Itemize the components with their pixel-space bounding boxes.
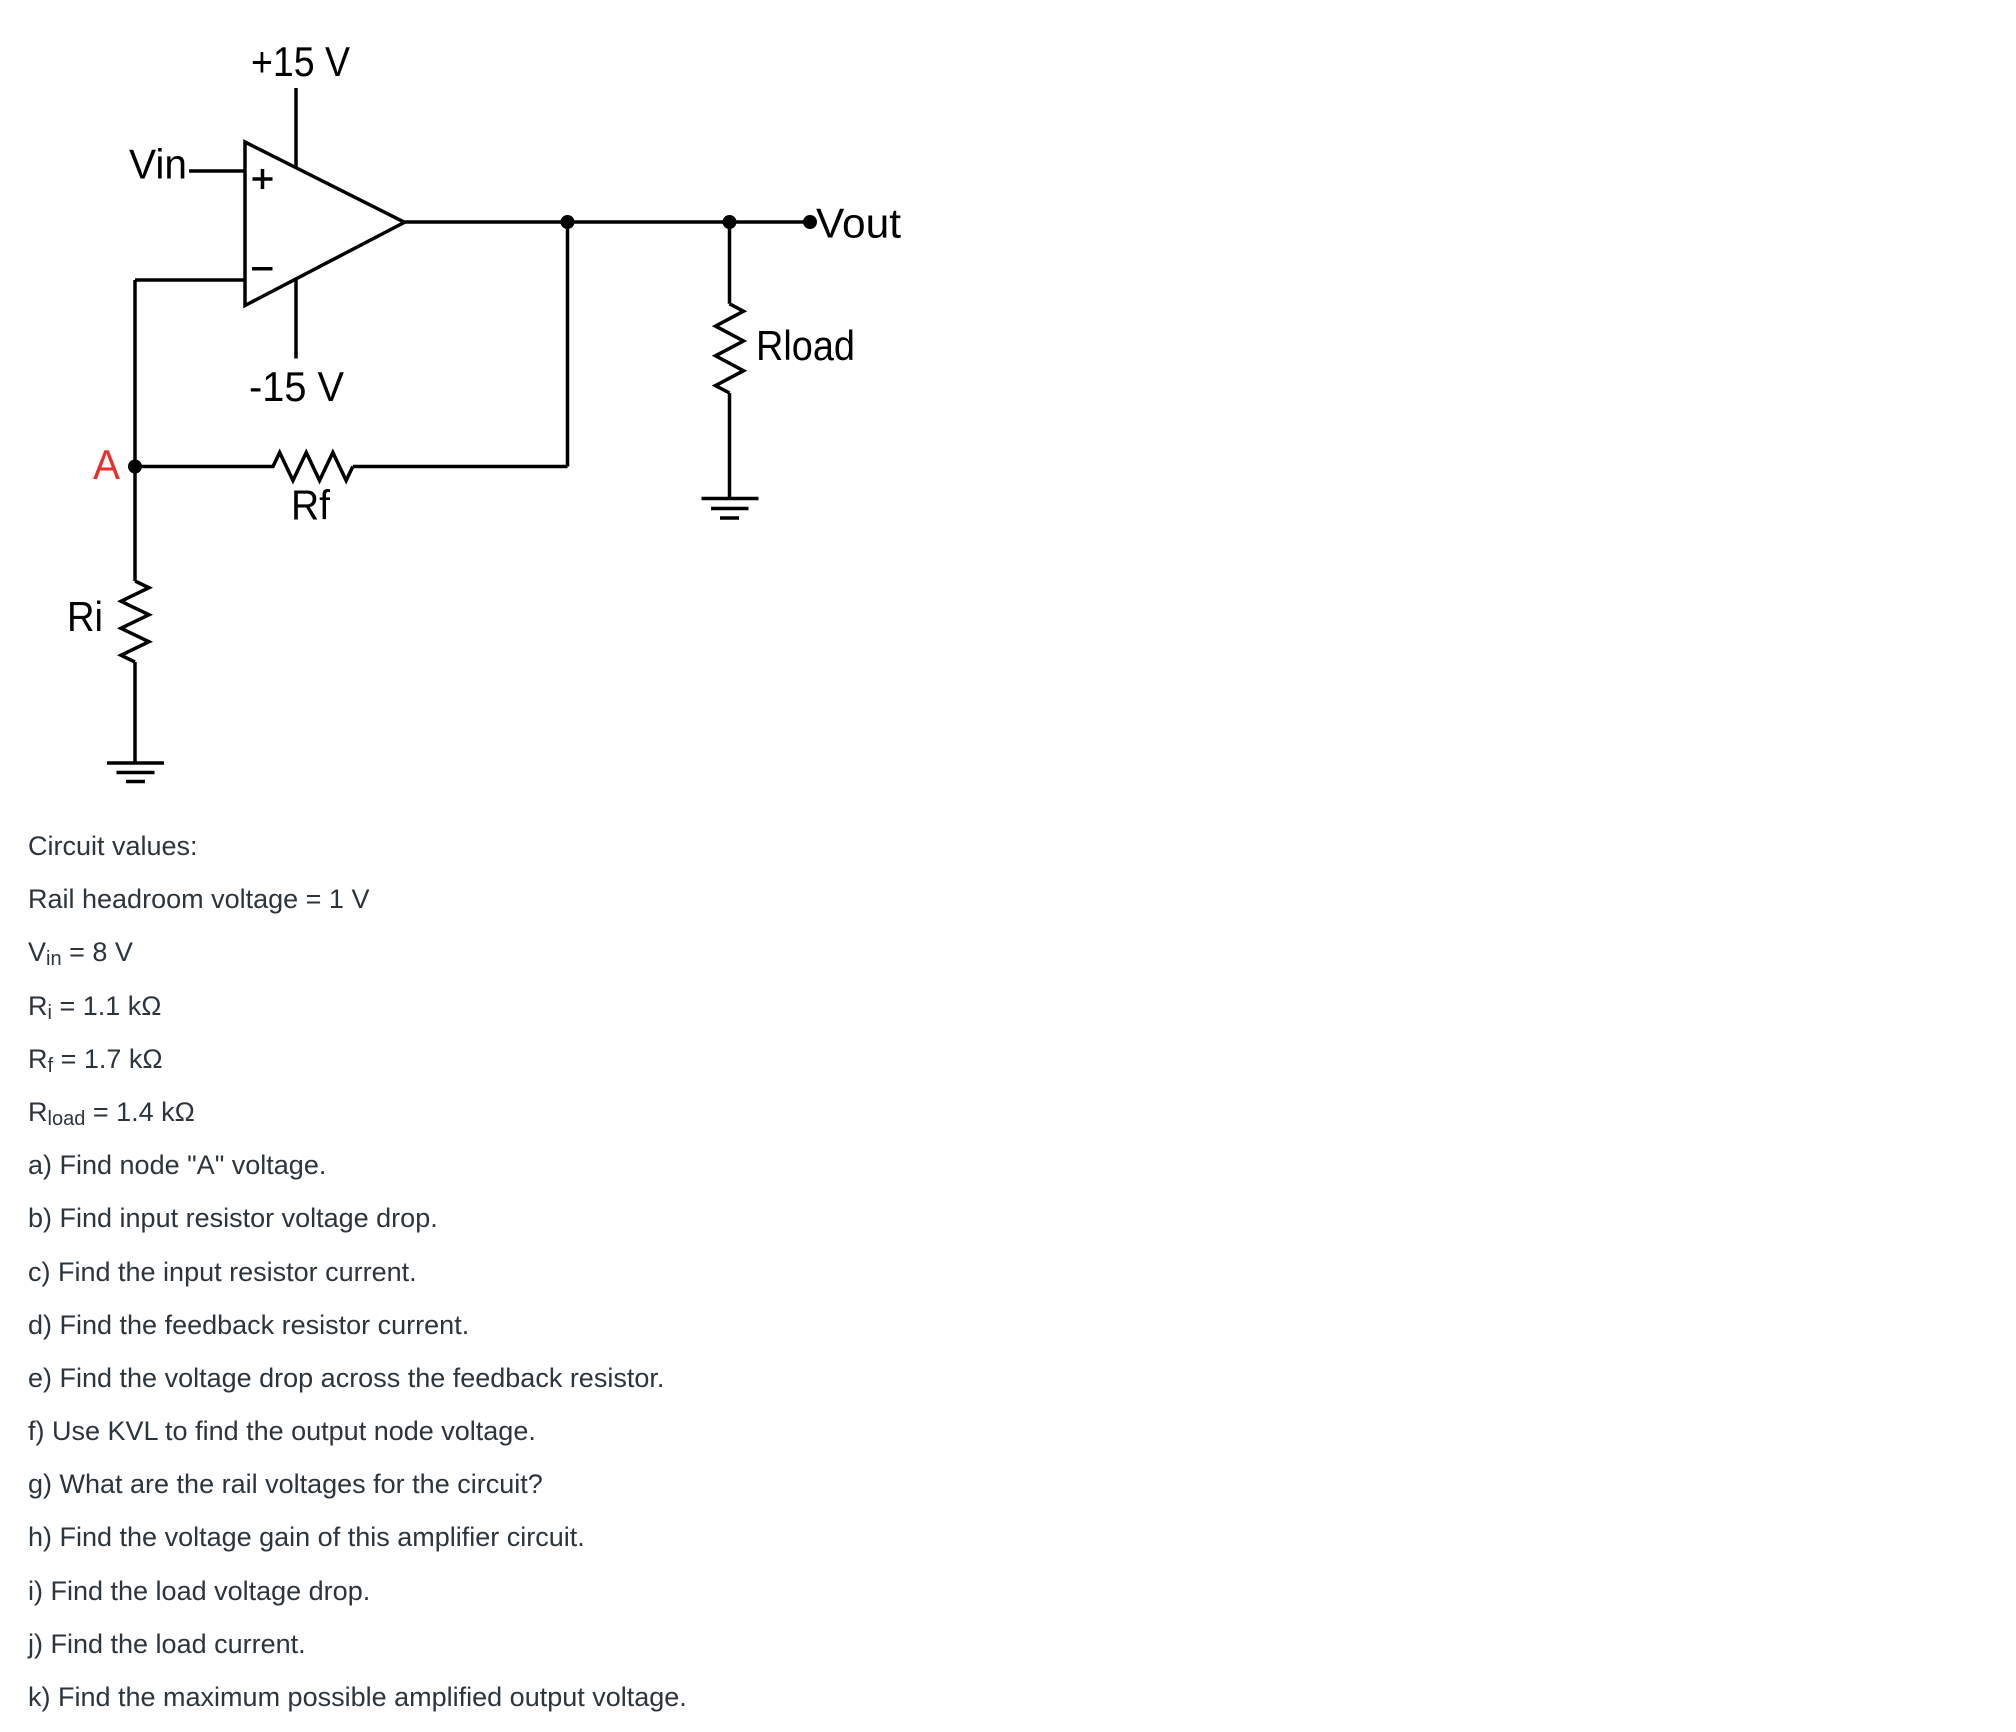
junction dot output-feedback bbox=[561, 215, 575, 229]
resistor Rload zigzag bbox=[716, 304, 744, 393]
op-amp - input marking bbox=[252, 267, 273, 271]
svg-text:Rf: Rf bbox=[291, 482, 330, 529]
op-amp + input marking bbox=[253, 169, 273, 189]
wire Rload top bbox=[728, 222, 732, 304]
wire node A vertical (inverting input down to node A) bbox=[133, 280, 137, 467]
wire feedback horizontal right part bbox=[353, 465, 568, 469]
wire node A down to Ri bbox=[133, 467, 137, 582]
resistor Rf zigzag bbox=[135, 453, 353, 481]
op-amp circuit schematic bbox=[0, 0, 1010, 830]
wire inverting input bbox=[135, 278, 245, 282]
circuit values and questions text bbox=[28, 820, 687, 1724]
svg-text:Rload: Rload bbox=[756, 322, 855, 369]
op-amp U1 triangle bbox=[245, 142, 405, 306]
output wire bbox=[405, 220, 811, 224]
svg-text:A: A bbox=[93, 441, 120, 488]
wire Rload to ground bbox=[728, 393, 732, 498]
junction dot output-load bbox=[723, 215, 737, 229]
wire Vin to + input bbox=[189, 169, 245, 173]
ground (load side) bbox=[702, 499, 759, 519]
+15 V supply wire bbox=[294, 88, 298, 168]
svg-text:Ri: Ri bbox=[67, 593, 103, 640]
wire Ri to ground bbox=[133, 662, 137, 763]
svg-text:+15 V: +15 V bbox=[251, 38, 350, 85]
svg-text:Vin: Vin bbox=[129, 141, 187, 188]
ground (input side) bbox=[107, 763, 164, 782]
svg-text:-15 V: -15 V bbox=[249, 363, 344, 410]
svg-text:Vout: Vout bbox=[816, 200, 901, 247]
Vout terminal dot bbox=[803, 215, 817, 229]
node A dot bbox=[128, 460, 142, 474]
-15 V supply wire bbox=[294, 280, 298, 359]
wire feedback vertical drop bbox=[566, 222, 570, 467]
resistor Ri zigzag bbox=[121, 581, 149, 662]
